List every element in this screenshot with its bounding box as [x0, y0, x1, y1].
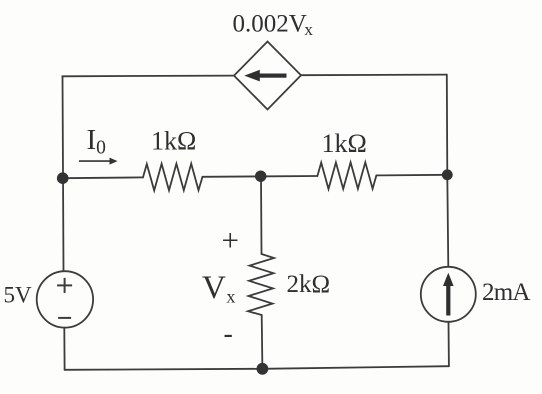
current arrow I0 (above middle rail): [79, 158, 118, 165]
dependent source U1 arrow (points left): [244, 70, 286, 82]
node B junction dot (center, middle rail): [255, 171, 266, 182]
svg-text:I0: I0: [87, 124, 106, 159]
node D junction dot (bottom rail): [257, 363, 269, 375]
voltage source V1 circle: [37, 271, 93, 327]
svg-text:2mA: 2mA: [482, 279, 530, 306]
node C junction dot (right, middle rail): [442, 169, 453, 180]
svg-text:-: -: [224, 319, 233, 350]
node A junction dot (left, middle rail): [57, 172, 69, 184]
wire top-right horizontal (diamond right vertex to top-right corner): [301, 74, 447, 77]
wire top-left horizontal (top-left corner to diamond left vertex): [63, 76, 235, 77]
wire middle horizontal right segment (R2 to node C): [376, 174, 447, 177]
svg-text:0.002Vx: 0.002Vx: [233, 11, 314, 40]
voltage source V1 minus sign: [58, 317, 71, 319]
svg-text:1kΩ: 1kΩ: [322, 129, 367, 158]
wire middle vertical lower (R3 down to node D): [261, 315, 264, 369]
current source I1 arrow (points up): [443, 273, 454, 316]
wire left-bottom vertical (5V source down to bottom-left corner): [63, 328, 65, 370]
svg-text:5V: 5V: [4, 283, 33, 308]
wire right vertical (top-right corner down to 2mA source): [447, 75, 449, 267]
wire middle horizontal left segment (node A to R1): [63, 176, 143, 179]
resistor R1 1kOhm zigzag: [143, 164, 203, 191]
resistor R3 2kOhm vertical zigzag: [248, 254, 274, 315]
voltage source V1 plus sign: [57, 278, 72, 293]
wire left vertical (top-left corner down to 5V source): [63, 76, 64, 271]
wire middle horizontal center segment (R1 to node B to R2): [203, 175, 318, 178]
svg-text:+: +: [222, 223, 239, 258]
resistor R2 1kOhm zigzag: [317, 162, 376, 189]
wire middle vertical upper (node B down to R3): [260, 176, 263, 254]
wire right-bottom vertical (2mA source down to bottom-right corner): [448, 322, 450, 366]
current source I1 circle: [421, 267, 476, 322]
svg-text:2kΩ: 2kΩ: [287, 271, 331, 298]
dependent source U1 diamond outline: [234, 42, 301, 110]
svg-text:Vx: Vx: [202, 270, 235, 307]
svg-text:1kΩ: 1kΩ: [151, 126, 196, 155]
wire bottom horizontal (bottom-left corner to bottom-right corner): [65, 366, 449, 370]
